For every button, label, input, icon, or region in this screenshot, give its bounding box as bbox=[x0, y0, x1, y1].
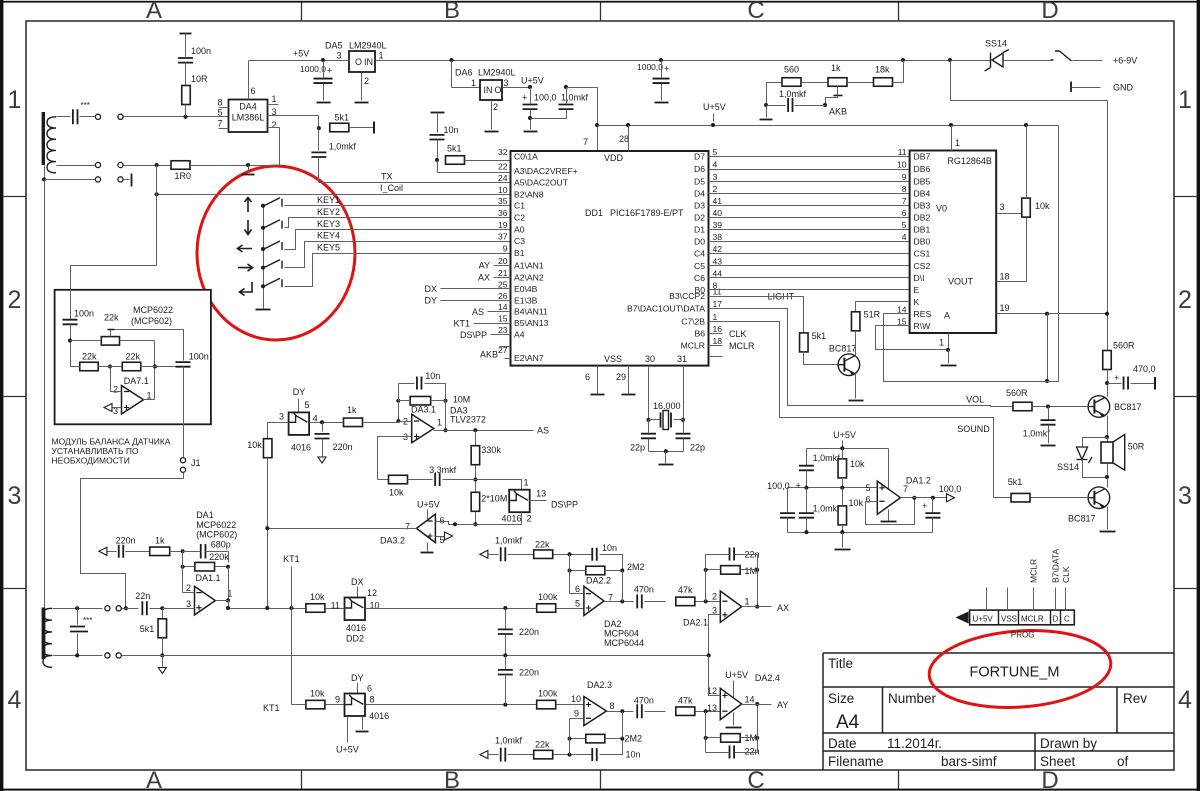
svg-text:21: 21 bbox=[498, 268, 508, 278]
svg-text:E0\4B: E0\4B bbox=[514, 284, 538, 294]
svg-text:TX: TX bbox=[381, 172, 393, 182]
svg-text:1,0mkf: 1,0mkf bbox=[1023, 429, 1051, 439]
connector circles T2 bbox=[105, 606, 110, 611]
svg-text:DA1: DA1 bbox=[196, 510, 214, 520]
wire module feed bbox=[156, 166, 158, 266]
PROG arrow bbox=[956, 612, 969, 624]
svg-text:220n: 220n bbox=[333, 442, 353, 452]
capacitor 220n (DY) bbox=[322, 423, 324, 432]
svg-text:7: 7 bbox=[583, 137, 588, 147]
svg-text:VOUT: VOUT bbox=[948, 277, 974, 287]
svg-text:DA2.2: DA2.2 bbox=[586, 575, 611, 585]
svg-text:1: 1 bbox=[437, 418, 442, 428]
node 1000,0 #1 bbox=[321, 58, 325, 62]
node right 22k bbox=[153, 365, 157, 369]
svg-text:11.2014г.: 11.2014г. bbox=[887, 736, 942, 751]
svg-text:DA2: DA2 bbox=[604, 619, 622, 629]
node row2 bbox=[155, 163, 159, 167]
svg-text:IN: IN bbox=[364, 57, 373, 67]
svg-text:1,0mkf: 1,0mkf bbox=[813, 504, 841, 514]
svg-text:2: 2 bbox=[1178, 286, 1192, 314]
main row1 wire bbox=[163, 608, 195, 610]
svg-text:2: 2 bbox=[113, 385, 118, 395]
svg-text:3: 3 bbox=[713, 172, 718, 182]
node mid 22k bbox=[108, 365, 112, 369]
svg-text:D\I: D\I bbox=[914, 273, 925, 283]
svg-text:10k: 10k bbox=[1035, 201, 1050, 211]
svg-text:6: 6 bbox=[367, 684, 372, 694]
svg-text:9: 9 bbox=[503, 244, 508, 254]
svg-text:3: 3 bbox=[186, 599, 191, 609]
svg-text:100k: 100k bbox=[538, 592, 558, 602]
DA7.1 output bbox=[144, 399, 155, 401]
svg-text:D4: D4 bbox=[694, 189, 705, 199]
capacitor 22p left bbox=[648, 420, 650, 433]
svg-text:A4: A4 bbox=[836, 712, 860, 733]
svg-text:bars-simf: bars-simf bbox=[941, 754, 997, 769]
margin tick marks bbox=[301, 3, 303, 22]
svg-text:6: 6 bbox=[902, 208, 907, 218]
svg-text:+: + bbox=[327, 66, 332, 76]
svg-text:MCLR: MCLR bbox=[1021, 615, 1044, 624]
svg-text:A: A bbox=[146, 767, 162, 791]
svg-text:B2\AN8: B2\AN8 bbox=[514, 189, 544, 199]
svg-text:DX: DX bbox=[424, 284, 437, 294]
svg-text:26: 26 bbox=[498, 291, 508, 301]
svg-text:3: 3 bbox=[336, 51, 341, 61]
svg-text:1,0mkf: 1,0mkf bbox=[779, 89, 807, 99]
node 5k1 T2 bbox=[160, 606, 164, 610]
svg-text:1: 1 bbox=[1178, 86, 1192, 114]
capacitor 1,0mkf AKB bbox=[767, 105, 786, 107]
DA1.2 bottom ground bbox=[842, 533, 844, 548]
svg-text:2M2: 2M2 bbox=[625, 734, 643, 744]
LCD RES pull-up route bbox=[884, 126, 1059, 382]
svg-text:1,0mkf: 1,0mkf bbox=[495, 536, 523, 546]
svg-text:7: 7 bbox=[405, 522, 410, 532]
svg-text:22k: 22k bbox=[535, 540, 550, 550]
svg-text:47k: 47k bbox=[678, 585, 693, 595]
svg-text:560: 560 bbox=[784, 65, 799, 75]
GND terminal bbox=[1070, 82, 1072, 93]
svg-text:8: 8 bbox=[610, 701, 615, 711]
svg-text:MCLR: MCLR bbox=[1029, 559, 1039, 583]
svg-text:10: 10 bbox=[571, 694, 581, 704]
svg-text:DA2.3: DA2.3 bbox=[587, 680, 612, 690]
DA1.2 top rail bbox=[807, 448, 889, 450]
svg-text:AY: AY bbox=[479, 261, 490, 271]
svg-text:J1: J1 bbox=[191, 458, 201, 468]
svg-text:47k: 47k bbox=[678, 696, 693, 706]
node +6-9V feed bbox=[948, 58, 952, 62]
svg-text:GND: GND bbox=[1113, 83, 1134, 93]
svg-text:B1: B1 bbox=[514, 248, 525, 258]
svg-text:220n: 220n bbox=[519, 668, 539, 678]
resistor 2M2 upper bbox=[586, 566, 605, 575]
resistor 2*10M bbox=[471, 492, 480, 511]
svg-text:22k: 22k bbox=[126, 352, 141, 362]
svg-text:100,0: 100,0 bbox=[939, 484, 962, 494]
svg-text:35: 35 bbox=[498, 196, 508, 206]
svg-text:16: 16 bbox=[713, 324, 723, 334]
svg-text:1,0mkf: 1,0mkf bbox=[813, 453, 841, 463]
svg-text:MCP604: MCP604 bbox=[604, 629, 639, 639]
svg-text:1: 1 bbox=[955, 138, 960, 148]
node DA1.1 inverting bbox=[181, 549, 185, 553]
svg-text:22k: 22k bbox=[104, 313, 119, 323]
ground arrow T2 bbox=[162, 656, 164, 667]
row2 wire bbox=[292, 704, 307, 706]
svg-text:(MCP602): (MCP602) bbox=[196, 530, 237, 540]
svg-text:2M2: 2M2 bbox=[627, 562, 645, 572]
svg-text:KEY4: KEY4 bbox=[317, 231, 340, 241]
svg-text:A1\AN1: A1\AN1 bbox=[514, 261, 544, 271]
svg-text:5k1: 5k1 bbox=[140, 624, 155, 634]
svg-text:6: 6 bbox=[575, 584, 580, 594]
svg-text:KEY1: KEY1 bbox=[317, 195, 340, 205]
DY lower power and ground bbox=[347, 717, 349, 743]
svg-text:8: 8 bbox=[370, 695, 375, 705]
svg-text:U+5V: U+5V bbox=[973, 615, 994, 624]
svg-text:10n: 10n bbox=[444, 125, 459, 135]
svg-text:18: 18 bbox=[1000, 272, 1010, 282]
svg-text:3: 3 bbox=[1178, 482, 1192, 510]
svg-text:43: 43 bbox=[713, 256, 723, 266]
svg-text:RG12864B: RG12864B bbox=[947, 156, 992, 166]
input marker 1,0mkf 22k lower bbox=[480, 751, 488, 759]
svg-text:C1: C1 bbox=[514, 201, 525, 211]
svg-text:E: E bbox=[914, 285, 920, 295]
svg-text:15: 15 bbox=[897, 316, 907, 326]
capacitor 680p bbox=[201, 544, 206, 559]
svg-text:C3: C3 bbox=[514, 236, 525, 246]
svg-text:VOL: VOL bbox=[966, 395, 984, 405]
svg-text:O: O bbox=[495, 85, 502, 95]
svg-text:8: 8 bbox=[902, 184, 907, 194]
DA3.2 pin6 node row bbox=[436, 522, 522, 525]
svg-text:B: B bbox=[444, 0, 460, 24]
svg-text:40: 40 bbox=[713, 208, 723, 218]
capacitor 10n upper bbox=[592, 548, 597, 561]
svg-text:9: 9 bbox=[902, 172, 907, 182]
svg-text:1000,0: 1000,0 bbox=[637, 62, 663, 72]
svg-text:BC817: BC817 bbox=[1114, 402, 1142, 412]
svg-text:9: 9 bbox=[574, 709, 579, 719]
svg-text:A3\DAC2VREF+: A3\DAC2VREF+ bbox=[514, 166, 578, 176]
svg-text:AX: AX bbox=[777, 603, 789, 613]
DA3.1 input node bbox=[396, 419, 400, 423]
svg-text:1: 1 bbox=[939, 338, 944, 348]
resistor 330k bbox=[475, 431, 477, 446]
DA2.4 ground bbox=[733, 713, 735, 726]
svg-text:A: A bbox=[146, 0, 162, 24]
svg-text:D: D bbox=[1041, 0, 1058, 24]
svg-text:AKB: AKB bbox=[829, 107, 847, 117]
keypad common bus bbox=[263, 206, 265, 309]
svg-text:18: 18 bbox=[713, 336, 723, 346]
svg-text:B7\DAC1OUT\DATA: B7\DAC1OUT\DATA bbox=[627, 303, 705, 313]
svg-text:D0: D0 bbox=[694, 237, 705, 247]
svg-text:DB2: DB2 bbox=[914, 213, 931, 223]
svg-text:DA4: DA4 bbox=[239, 102, 257, 112]
svg-text:6: 6 bbox=[865, 495, 870, 505]
wire DA4 pin3 out bbox=[268, 115, 319, 117]
svg-text:560R: 560R bbox=[1113, 340, 1135, 350]
svg-text:U+5V: U+5V bbox=[417, 500, 440, 510]
LCD data bus bbox=[709, 156, 910, 158]
capacitor 22p right bbox=[683, 420, 685, 433]
wire +6-9V down to audio bbox=[950, 61, 952, 101]
svg-text:DX: DX bbox=[351, 577, 364, 587]
long shield wire down to T2 bbox=[44, 180, 46, 608]
svg-text:D1: D1 bbox=[694, 225, 705, 235]
svg-text:14: 14 bbox=[498, 302, 508, 312]
svg-text:17: 17 bbox=[713, 299, 723, 309]
svg-text:DA1.2: DA1.2 bbox=[906, 475, 931, 485]
svg-text:4: 4 bbox=[713, 160, 718, 170]
svg-text:FORTUNE_M: FORTUNE_M bbox=[970, 665, 1060, 681]
svg-text:22p: 22p bbox=[630, 443, 645, 453]
svg-text:5k1: 5k1 bbox=[335, 113, 350, 123]
DA3.1 output AS bbox=[444, 428, 448, 432]
svg-text:AY: AY bbox=[777, 700, 788, 710]
svg-text:A4: A4 bbox=[514, 329, 525, 339]
svg-text:22: 22 bbox=[498, 162, 508, 172]
output marker arrow bbox=[947, 494, 955, 502]
svg-text:220k: 220k bbox=[209, 552, 229, 562]
key switch S3 left-arrow bbox=[238, 245, 253, 252]
node DA4 pin4 ground bbox=[246, 163, 250, 167]
capacitor 1,0mkf vol bbox=[1048, 407, 1050, 420]
svg-text:3.3mkf: 3.3mkf bbox=[429, 465, 457, 475]
svg-text:5: 5 bbox=[305, 400, 310, 410]
connector circles row1 bbox=[95, 114, 100, 119]
svg-text:CS1: CS1 bbox=[914, 249, 931, 259]
svg-text:10M: 10M bbox=[453, 394, 471, 404]
svg-text:470n: 470n bbox=[634, 585, 654, 595]
svg-text:PROG: PROG bbox=[1011, 631, 1035, 640]
svg-text:1: 1 bbox=[471, 78, 476, 88]
svg-text:20: 20 bbox=[498, 256, 508, 266]
svg-text:DA2.1: DA2.1 bbox=[683, 617, 708, 627]
input marker 1,0mkf 22k upper bbox=[480, 550, 488, 558]
svg-text:A0: A0 bbox=[514, 225, 525, 235]
BC817 sound emitter ground bbox=[1107, 507, 1109, 530]
key switch S4 right-arrow bbox=[238, 264, 253, 271]
svg-text:100n: 100n bbox=[74, 309, 94, 319]
svg-text:AKB: AKB bbox=[480, 350, 498, 360]
svg-text:CS2: CS2 bbox=[914, 261, 931, 271]
svg-text:3: 3 bbox=[504, 78, 509, 88]
svg-text:(MCP602): (MCP602) bbox=[131, 316, 172, 326]
svg-text:U+5V: U+5V bbox=[521, 76, 544, 86]
U+5V feed to DD1 pin7 bbox=[567, 87, 598, 89]
svg-text:2: 2 bbox=[713, 184, 718, 194]
resistor 10R bbox=[182, 86, 191, 105]
svg-text:LM2940L: LM2940L bbox=[349, 41, 387, 51]
svg-text:C: C bbox=[747, 767, 764, 791]
svg-text:KEY2: KEY2 bbox=[317, 207, 340, 217]
svg-text:C7\2B: C7\2B bbox=[681, 316, 705, 326]
node 1000,0 #2 bbox=[659, 58, 663, 62]
svg-text:C: C bbox=[1064, 615, 1070, 624]
svg-text:O: O bbox=[355, 57, 362, 67]
svg-text:+: + bbox=[664, 64, 669, 74]
svg-text:7: 7 bbox=[608, 592, 613, 602]
svg-text:CLK: CLK bbox=[1061, 566, 1071, 583]
svg-text:Drawn by: Drawn by bbox=[1040, 736, 1097, 751]
T2 bottom lead bbox=[53, 655, 103, 657]
svg-text:30: 30 bbox=[645, 354, 655, 364]
svg-text:5: 5 bbox=[902, 220, 907, 230]
svg-text:U+5V: U+5V bbox=[833, 430, 856, 440]
svg-text:DD1: DD1 bbox=[585, 208, 603, 218]
svg-text:4016: 4016 bbox=[291, 443, 311, 453]
transformer T2 shield bar bbox=[42, 608, 46, 660]
svg-text:K: K bbox=[914, 297, 920, 307]
resistor 10k (DY upper) bbox=[268, 423, 289, 439]
1k wiper tap bbox=[837, 87, 839, 96]
DA1.2 output bbox=[912, 496, 916, 500]
DA3.2 pin5 marker bbox=[436, 536, 445, 538]
svg-text:24: 24 bbox=[498, 173, 508, 183]
svg-text:1: 1 bbox=[745, 597, 750, 607]
svg-text:12: 12 bbox=[367, 588, 377, 598]
svg-text:+: + bbox=[1114, 373, 1119, 383]
svg-text:10n: 10n bbox=[425, 371, 440, 381]
feedback 10M bbox=[396, 399, 400, 403]
LCD RG12864B body bbox=[910, 151, 997, 334]
svg-text:10k: 10k bbox=[310, 689, 325, 699]
svg-text:SOUND: SOUND bbox=[957, 424, 990, 434]
svg-text:CLK: CLK bbox=[729, 329, 747, 339]
svg-text:MCLR: MCLR bbox=[681, 341, 705, 351]
wire DY out bbox=[366, 704, 537, 706]
svg-text:AS: AS bbox=[537, 425, 549, 435]
DA2.3 output bbox=[607, 711, 634, 713]
svg-text:U+5V: U+5V bbox=[703, 102, 726, 112]
svg-text:SS14: SS14 bbox=[985, 39, 1007, 49]
svg-text:KT1: KT1 bbox=[283, 554, 300, 564]
svg-text:32: 32 bbox=[498, 147, 508, 157]
svg-text:680p: 680p bbox=[211, 539, 231, 549]
svg-text:KT1: KT1 bbox=[453, 319, 470, 329]
DA2.1 pin3 to mid rail bbox=[709, 615, 721, 656]
svg-text:4: 4 bbox=[1178, 686, 1192, 714]
svg-text:44: 44 bbox=[713, 268, 723, 278]
svg-text:DB6: DB6 bbox=[914, 164, 931, 174]
resistor 10k DA1.2 lower bbox=[838, 506, 847, 525]
svg-text:11: 11 bbox=[713, 287, 722, 297]
svg-text:220n: 220n bbox=[116, 535, 136, 545]
op-amp DA4 LM386L bbox=[229, 100, 268, 133]
input marker 220n 1k bbox=[99, 547, 107, 555]
svg-text:+5V: +5V bbox=[293, 49, 309, 59]
svg-text:6: 6 bbox=[585, 372, 590, 382]
svg-text:100,0: 100,0 bbox=[534, 93, 557, 103]
svg-text:C5: C5 bbox=[694, 261, 705, 271]
svg-text:LM2940L: LM2940L bbox=[478, 68, 516, 78]
wire DX out bbox=[366, 608, 537, 610]
svg-text:Date: Date bbox=[828, 736, 857, 751]
crystal ground bbox=[649, 451, 684, 453]
svg-text:B3\CCP2: B3\CCP2 bbox=[669, 291, 705, 301]
svg-text:7: 7 bbox=[903, 484, 908, 494]
svg-text:Size: Size bbox=[828, 691, 854, 706]
svg-text:DB7: DB7 bbox=[914, 152, 931, 162]
svg-text:B7\DATA: B7\DATA bbox=[1051, 549, 1061, 583]
capacitor 220n upper bbox=[505, 609, 507, 629]
svg-text:AX: AX bbox=[478, 273, 490, 283]
svg-text:9: 9 bbox=[335, 695, 340, 705]
svg-text:AS: AS bbox=[472, 307, 484, 317]
key switch S2 down-arrow bbox=[245, 220, 252, 235]
svg-text:УСТАНАВЛИВАТЬ ПО: УСТАНАВЛИВАТЬ ПО bbox=[52, 446, 140, 456]
svg-text:10k: 10k bbox=[850, 459, 865, 469]
node 18k riser bbox=[901, 58, 905, 62]
wire T1 bottom lead row2 bbox=[57, 165, 96, 167]
DA1.2 mid row bbox=[788, 487, 878, 489]
resistors 560 1k 18k bbox=[766, 83, 768, 106]
+5V rail middle bbox=[384, 60, 951, 62]
svg-text:38: 38 bbox=[713, 232, 723, 242]
svg-text:DB5: DB5 bbox=[914, 177, 931, 187]
resistor 5k1 (DA4 out) bbox=[330, 123, 349, 132]
svg-text:1,0mkf: 1,0mkf bbox=[495, 736, 523, 746]
svg-text:6: 6 bbox=[440, 516, 445, 526]
svg-text:D7: D7 bbox=[694, 152, 705, 162]
capacitor 1,0mkf (DA4 out) bbox=[318, 129, 320, 151]
capacitor 10n lower bbox=[592, 748, 597, 761]
svg-text:KEY3: KEY3 bbox=[317, 219, 340, 229]
transformer T1 shield bar bbox=[42, 112, 45, 165]
svg-text:11: 11 bbox=[331, 601, 340, 611]
svg-text:RES: RES bbox=[914, 309, 932, 319]
wire to BC817 base bbox=[804, 352, 839, 365]
DA2.1 output AX bbox=[755, 605, 759, 609]
svg-text:B4\AN11: B4\AN11 bbox=[514, 307, 548, 317]
red ellipse around keys bbox=[197, 166, 355, 340]
svg-text:5: 5 bbox=[865, 483, 870, 493]
svg-text:3: 3 bbox=[279, 412, 284, 422]
svg-text:VSS: VSS bbox=[604, 354, 622, 364]
wire J1 to T2 bbox=[81, 473, 184, 609]
svg-text:DB4: DB4 bbox=[914, 189, 931, 199]
svg-text:22k: 22k bbox=[82, 352, 97, 362]
svg-text:D3: D3 bbox=[694, 201, 705, 211]
svg-text:1: 1 bbox=[8, 86, 22, 114]
svg-text:1k: 1k bbox=[155, 535, 165, 545]
key switch S5 enter-arrow bbox=[240, 282, 253, 296]
svg-text:D2: D2 bbox=[694, 213, 705, 223]
svg-text:5: 5 bbox=[217, 108, 222, 118]
svg-text:3: 3 bbox=[712, 605, 717, 615]
svg-text:51R: 51R bbox=[864, 309, 881, 319]
svg-text:22k: 22k bbox=[535, 740, 550, 750]
svg-text:D: D bbox=[1053, 615, 1059, 624]
svg-text:1: 1 bbox=[272, 94, 277, 104]
svg-text:100n: 100n bbox=[189, 352, 209, 362]
svg-text:DB1: DB1 bbox=[914, 225, 931, 235]
wire pin22 bbox=[437, 161, 439, 173]
svg-text:DB3: DB3 bbox=[914, 201, 931, 211]
svg-text:5k1: 5k1 bbox=[447, 144, 462, 154]
resistor 2M2 lower bbox=[586, 734, 605, 743]
module box bbox=[55, 290, 211, 425]
DA1.2 bottom row bbox=[788, 532, 933, 534]
connector J1 bbox=[180, 458, 185, 463]
svg-text:+: + bbox=[922, 501, 927, 511]
